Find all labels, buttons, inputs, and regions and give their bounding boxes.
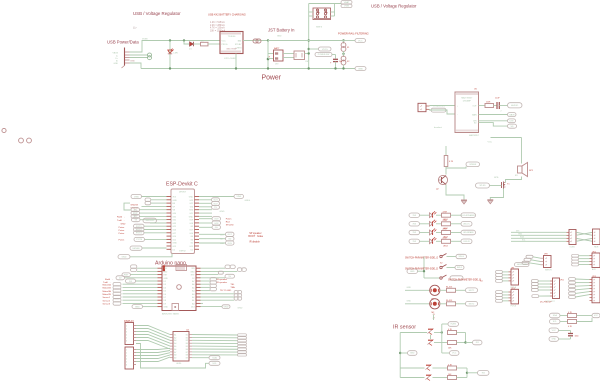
wire GND pin to bottom rail — [130, 63, 142, 69]
net label nano R7 — [210, 287, 217, 290]
net labels JP10 — [496, 291, 509, 303]
wire nano L9 — [123, 296, 158, 298]
net label motor 2 — [466, 301, 478, 306]
wire decouple row3 — [559, 330, 571, 332]
svg-text:10u: 10u — [339, 61, 342, 63]
connector JP5 body — [567, 230, 577, 249]
wire speaker to fet drain — [506, 177, 522, 182]
svg-text:A1: A1 — [192, 299, 194, 302]
svg-text:A3: A3 — [192, 293, 194, 296]
wire servo b — [531, 260, 541, 262]
wire JP4 to amp top — [430, 105, 456, 107]
svg-text:6: 6 — [126, 365, 127, 367]
net label speaker node — [466, 162, 480, 167]
svg-text:GND: GND — [189, 197, 194, 199]
net label ESP L10 — [134, 228, 145, 232]
wire amp sd bend — [479, 123, 508, 127]
svg-text:RL-313: RL-313 — [446, 286, 452, 288]
wire JP3 bottom long — [136, 344, 209, 369]
svg-text:+: + — [330, 62, 332, 65]
resistor motor 1 — [446, 286, 456, 292]
svg-text:D9: D9 — [164, 303, 166, 305]
wire amp gain to label — [479, 114, 508, 116]
wire protection to switch column — [305, 53, 309, 55]
svg-text:TX0: TX0 — [190, 206, 193, 208]
wire ESP L11 — [144, 232, 167, 234]
amp IC U5 bottom pin marks — [457, 130, 477, 132]
svg-text:A5: A5 — [174, 345, 176, 348]
net label GND rail — [355, 67, 366, 71]
wire nano R12 — [201, 306, 223, 308]
wire gnd label link — [400, 352, 407, 354]
wire battery column vertical — [267, 41, 269, 69]
net label ESP L12 — [134, 237, 145, 241]
wire IR node vertical — [441, 324, 443, 353]
junction rail at battery column — [267, 39, 269, 41]
svg-text:I2S AMP: I2S AMP — [463, 99, 472, 102]
svg-text:SPK-: SPK- — [494, 177, 499, 179]
wire JST to protection 2 — [283, 57, 294, 59]
svg-text:HDR: HDR — [594, 247, 599, 249]
LED D4 — [430, 220, 437, 226]
wire nano L3 — [125, 277, 158, 279]
net labels JP9 — [496, 271, 509, 283]
junction IR out 2 — [466, 372, 468, 374]
svg-text:220R: 220R — [443, 238, 448, 240]
net label GPIO pair — [143, 218, 157, 223]
wire LED row 3 c — [451, 232, 462, 234]
wire ESP L9 — [144, 225, 167, 227]
ground mosfet — [487, 200, 493, 204]
net label ESP L6 — [131, 214, 140, 218]
svg-text:POT4: POT4 — [136, 239, 142, 241]
net label IR out — [473, 340, 483, 345]
capacitor C3 — [568, 331, 579, 340]
wire ESP L3 — [142, 205, 167, 207]
wire amp din to label — [479, 120, 508, 122]
svg-text:G23: G23 — [189, 200, 193, 202]
wire ESP R0 — [199, 196, 234, 198]
connector X1 USB body — [113, 48, 125, 69]
wire bottom rail GND — [141, 68, 355, 70]
svg-text:SP1: SP1 — [529, 170, 534, 172]
svg-text:POT-B: POT-B — [511, 306, 517, 308]
wire ESP L8 — [150, 222, 167, 224]
svg-text:GND: GND — [410, 271, 415, 273]
wire resistor to cap — [494, 105, 497, 107]
svg-text:G18: G18 — [214, 223, 219, 225]
svg-text:6: 6 — [126, 341, 127, 343]
IR emitter D5 — [428, 329, 434, 335]
wire nano L5 — [123, 283, 158, 285]
svg-text:A5: A5 — [192, 286, 194, 289]
svg-text:RST: RST — [191, 275, 196, 277]
wire IR out 2 — [467, 372, 478, 374]
svg-text:TX1: TX1 — [164, 268, 167, 270]
svg-text:Poten: Poten — [119, 226, 125, 229]
svg-text:G19: G19 — [189, 220, 193, 222]
net label POWER-SW long — [315, 53, 332, 57]
svg-text:A9: A9 — [174, 357, 176, 360]
net label LED row 2 left — [409, 222, 420, 226]
wire motor 1 mid — [440, 289, 447, 291]
wire motor 2 right — [456, 303, 466, 305]
mounting hole H1 — [2, 128, 6, 132]
wire nano R0 — [201, 267, 226, 269]
svg-text:GND: GND — [552, 339, 557, 341]
svg-text:GND: GND — [518, 234, 523, 236]
net label nano R0b — [230, 265, 235, 269]
net label nano R3 — [225, 274, 235, 278]
svg-text:OUT: OUT — [473, 105, 478, 107]
svg-text:A4: A4 — [192, 290, 194, 293]
net label nano R9a — [234, 294, 238, 297]
svg-text:POWER-RAIL-FILTERING: POWER-RAIL-FILTERING — [338, 32, 369, 36]
wire gnd label to column — [418, 270, 425, 272]
svg-text:LED-SPEAKER: LED-SPEAKER — [462, 214, 476, 217]
svg-text:2: 2 — [126, 329, 127, 331]
net label nano L7 — [113, 289, 121, 293]
protection IC Q1 body — [294, 51, 310, 63]
svg-text:4: 4 — [126, 335, 127, 337]
wire pullup top — [445, 146, 447, 156]
connector JP2 header body — [125, 323, 136, 345]
svg-text:ESP-Devkit C: ESP-Devkit C — [166, 182, 198, 188]
net label VSYS — [319, 47, 332, 51]
net label nano R6 — [210, 284, 217, 287]
wire LED branch vertical — [169, 41, 171, 69]
svg-text:D2: D2 — [119, 278, 123, 280]
net label ESP R11 — [226, 237, 235, 241]
charge current table text — [210, 21, 226, 32]
net label ESP R2 — [212, 202, 220, 206]
wire ESP L4 — [140, 209, 167, 211]
net label nano L2 — [122, 273, 130, 277]
svg-text:VCC: VCC — [594, 315, 599, 317]
wire VUSB from USB pin to top rail — [130, 41, 149, 53]
svg-text:BAT: BAT — [238, 39, 243, 42]
svg-text:5: 5 — [126, 362, 127, 364]
svg-text:BOOT brake: BOOT brake — [248, 235, 263, 238]
svg-text:D1: D1 — [189, 49, 192, 51]
svg-text:SENSE: SENSE — [132, 248, 140, 250]
svg-text:JP12: JP12 — [592, 252, 596, 254]
ferrite bead L2 — [341, 56, 350, 65]
diode D2 — [189, 42, 194, 51]
net labels JP11 — [531, 280, 550, 298]
wire LED row 4 b — [436, 240, 442, 242]
net label decouple row4 left — [549, 337, 559, 342]
net label IR out 2 — [478, 371, 490, 376]
connector JP3 header body — [125, 347, 136, 369]
IR emitter D6 — [426, 365, 432, 371]
resistor R3 vertical — [444, 156, 454, 167]
wire decouple row4 — [559, 338, 571, 340]
net label pullup row1 left — [550, 313, 561, 318]
svg-text:B4: B4 — [186, 343, 188, 345]
svg-text:GAIN: GAIN — [472, 113, 477, 116]
svg-text:GND: GND — [114, 63, 119, 65]
svg-text:TE TC-LED: TE TC-LED — [220, 290, 232, 292]
amp IC U5 body — [455, 92, 479, 133]
wire ESP R1 — [199, 199, 212, 201]
module U2 ESP-Devkit body — [171, 189, 195, 254]
svg-text:VIN5: VIN5 — [134, 196, 140, 198]
svg-text:Txd0 →: Txd0 → — [117, 220, 125, 222]
wire top rail VUSB — [142, 40, 220, 42]
wire switch D to label — [447, 267, 456, 269]
net label nano L4 — [126, 279, 136, 283]
wire loop left bracket — [124, 203, 131, 210]
net label nano R8a — [234, 290, 238, 293]
svg-text:F1: F1 — [347, 47, 350, 49]
junction battery pin 2 — [267, 58, 270, 61]
svg-text:A2: A2 — [174, 336, 176, 339]
wire IR right vertical 2 — [466, 368, 468, 378]
svg-text:T1: T1 — [507, 184, 510, 186]
svg-text:SERVO-SIG: SERVO-SIG — [517, 264, 528, 266]
svg-text:SPKEN: SPKEN — [469, 164, 476, 166]
svg-text:1: 1 — [126, 326, 127, 328]
svg-text:G17: G17 — [228, 234, 233, 236]
svg-text:220R: 220R — [443, 211, 448, 213]
svg-text:GND: GND — [224, 306, 229, 308]
svg-text:VBAT: VBAT — [344, 1, 350, 4]
wire IR row3 right — [433, 367, 448, 369]
wire IR right vertical — [465, 333, 467, 343]
svg-text:Power: Power — [262, 75, 282, 82]
net label din — [508, 119, 516, 123]
svg-text:JST: JST — [275, 64, 279, 66]
wire IR row1 left — [400, 332, 427, 334]
module U3 Arduino nano body — [162, 266, 196, 311]
wire gate to mosfet — [490, 185, 502, 187]
svg-text:SD: SD — [474, 122, 477, 124]
svg-text:GND: GND — [164, 307, 169, 309]
resistor R10 ir — [448, 364, 457, 370]
wire branch to VSYS label — [309, 48, 319, 50]
wire ESP R2 — [199, 202, 212, 204]
svg-text:G16: G16 — [189, 233, 193, 235]
pin stack right of U4 — [238, 334, 247, 356]
capacitor C1 — [330, 59, 342, 64]
wire ESP L10 — [144, 229, 167, 231]
svg-text:SWITCH-PARAMETER-SIDE_B: SWITCH-PARAMETER-SIDE_B — [448, 278, 481, 281]
net label nano R9b — [238, 294, 242, 297]
wire charger ground — [235, 54, 237, 69]
wire nano R3 — [201, 277, 226, 279]
svg-text:PROG: PROG — [222, 44, 228, 46]
svg-text:VCC: VCC — [552, 330, 557, 332]
net label LED row 4 left — [409, 239, 420, 243]
wire node to label — [446, 167, 466, 169]
net label speaker lower — [431, 108, 446, 112]
svg-text:GND: GND — [121, 223, 126, 225]
svg-text:Motor2A: Motor2A — [103, 290, 112, 293]
junction bottom rail at filter — [342, 67, 344, 69]
wire IR row3 to vertical — [457, 367, 468, 369]
net label nano L9 — [113, 295, 121, 299]
net label servo stack a — [526, 255, 533, 258]
svg-text:G18: G18 — [189, 223, 193, 225]
svg-text:Q2: Q2 — [436, 189, 440, 191]
svg-text:B2: B2 — [186, 337, 188, 339]
net label ESP R12 — [226, 241, 235, 245]
svg-text:Poten: Poten — [119, 232, 125, 235]
svg-text:JP11: JP11 — [560, 280, 564, 282]
wire nano L8 — [123, 293, 158, 295]
svg-text:4.7K: 4.7K — [449, 161, 454, 163]
speaker LS1 symbol — [515, 163, 534, 178]
svg-text:LED4: LED4 — [443, 245, 448, 247]
wire nano R6 — [201, 286, 211, 288]
svg-text:LEVEL: LEVEL — [176, 363, 182, 365]
svg-text:GND: GND — [135, 306, 140, 308]
svg-text:G35: G35 — [173, 216, 177, 218]
net label nano L3 — [116, 276, 125, 280]
svg-text:TP4056: TP4056 — [228, 36, 236, 38]
connector JP4 speaker input body — [418, 103, 430, 111]
svg-text:GPIO-22: GPIO-22 — [146, 220, 155, 222]
wire IR row4 to vertical — [457, 377, 468, 379]
motor M2 symbol — [430, 299, 440, 314]
svg-text:GND: GND — [122, 257, 127, 259]
net label nano R0a — [225, 265, 230, 269]
wire ESP L5 — [140, 212, 167, 214]
charger IC U1 top pin marks — [222, 33, 240, 35]
wire ESP L12 — [145, 238, 167, 240]
connector JP6 body — [593, 229, 600, 249]
IR detector Q4 — [426, 375, 432, 381]
svg-text:D1: D1 — [191, 249, 193, 251]
wire D- to pair symbol — [130, 54, 149, 56]
svg-text:A6: A6 — [192, 283, 194, 286]
net label pullup row2 left — [550, 319, 561, 324]
svg-text:FET: FET — [306, 61, 311, 63]
wires JP3 to U4 bundle — [136, 348, 170, 361]
net label ESP L7 — [132, 218, 141, 222]
connector JP12 body — [590, 252, 600, 271]
wire ESP R10 — [199, 233, 226, 235]
wire LED row 4 a — [420, 240, 430, 242]
svg-text:G22: G22 — [213, 203, 218, 205]
net label VBAT — [341, 1, 352, 4]
net labels JP13 — [569, 278, 590, 299]
amp IC U5 inner text — [457, 97, 477, 125]
wire LED row 1 c — [451, 214, 462, 216]
net label nano L8 — [113, 292, 121, 296]
wire IR left vertical — [399, 333, 401, 378]
LED D5 — [430, 229, 437, 235]
wire pullup row2 b — [577, 318, 593, 322]
svg-text:SDA: SDA — [212, 356, 217, 359]
USB differential pair symbol — [148, 53, 152, 60]
svg-text:4.7K: 4.7K — [568, 326, 573, 328]
svg-text:D3: D3 — [164, 284, 166, 286]
svg-text:A7: A7 — [192, 280, 194, 283]
svg-text:GND: GND — [238, 307, 243, 309]
transistor Q2 body — [436, 175, 448, 190]
wire LED row 3 b — [436, 232, 442, 234]
net label LED row 2 right — [461, 222, 472, 227]
net label sd — [508, 124, 517, 128]
svg-text:220R: 220R — [443, 220, 448, 222]
svg-text:SWITCH-PARAMETER-SIDE_G: SWITCH-PARAMETER-SIDE_G — [405, 256, 438, 259]
svg-text:GND: GND — [407, 287, 412, 289]
wire U4 to SDA label — [192, 357, 209, 359]
net label LED row 4 right — [461, 239, 472, 244]
net label motor 1 — [466, 288, 478, 293]
wire nano L4 — [136, 280, 158, 282]
net label ESP L9 — [134, 224, 145, 228]
wire ESP R9 — [199, 226, 212, 228]
net label nano L0 — [131, 265, 137, 268]
wire ESP bottom left long — [130, 254, 172, 257]
svg-text:G15: G15 — [189, 246, 193, 248]
wire filter column lower — [343, 65, 345, 69]
net label ESP R9 — [212, 225, 221, 229]
ferrite bead L1 — [341, 43, 350, 52]
svg-text:-: - — [457, 114, 458, 116]
svg-text:SDA: SDA — [553, 314, 558, 317]
resistor R6 — [442, 229, 451, 239]
svg-text:G26: G26 — [173, 230, 177, 232]
svg-text:A1: A1 — [174, 333, 176, 336]
svg-text:2: 2 — [126, 353, 127, 355]
svg-text:B8: B8 — [186, 355, 188, 357]
svg-text:GND: GND — [277, 36, 282, 38]
svg-text:VIN5: VIN5 — [236, 196, 242, 198]
bus pin notes — [516, 231, 526, 242]
wires U4 right bundle — [192, 335, 238, 355]
net label ESP L0 — [131, 195, 142, 199]
resistor R11 ir — [448, 374, 457, 380]
svg-text:IR2: IR2 — [482, 373, 486, 375]
svg-text:GND: GND — [173, 243, 178, 245]
switch S1 left pins — [309, 12, 313, 16]
mounting hole H3 — [27, 138, 32, 143]
wire battery pin 1 — [268, 53, 274, 55]
svg-text:POT3: POT3 — [136, 233, 142, 235]
wire D+ to pair symbol — [130, 57, 149, 59]
wire IR pair link — [430, 335, 432, 340]
resistor R7 — [442, 238, 451, 248]
net label nano R1b — [242, 268, 247, 272]
net label ESP R3 — [212, 205, 220, 209]
svg-text:D4: D4 — [164, 287, 166, 289]
net label ESP L2 — [145, 201, 151, 205]
net label U4 SCL — [209, 361, 220, 365]
svg-text:S2: S2 — [440, 263, 443, 265]
svg-text:VBUS: VBUS — [113, 53, 119, 55]
svg-text:SERVO: SERVO — [545, 270, 552, 272]
wire nano R2 — [201, 274, 219, 276]
svg-text:VSYS: VSYS — [322, 49, 328, 51]
wire rail battery to filter — [268, 40, 344, 42]
wire switch G to label — [447, 256, 457, 258]
resistor R2 amp out — [485, 102, 494, 108]
svg-text:G25: G25 — [173, 226, 177, 228]
svg-text:G17: G17 — [189, 230, 193, 232]
svg-text:10uF: 10uF — [495, 98, 500, 100]
wire ESP R6 — [199, 215, 212, 217]
svg-text:220R: 220R — [486, 102, 491, 104]
svg-text:B9: B9 — [186, 358, 188, 360]
svg-text:Motor2B: Motor2B — [103, 293, 112, 296]
svg-text:TX: TX — [134, 219, 137, 221]
svg-text:G4: G4 — [190, 236, 193, 238]
svg-text:OLED: OLED — [570, 247, 576, 249]
